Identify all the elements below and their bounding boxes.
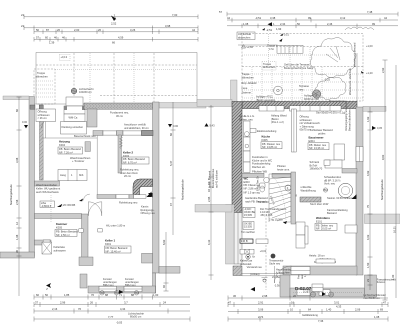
survey marker — [111, 14, 117, 26]
svg-text:Rohrleitung neu: Rohrleitung neu — [119, 200, 138, 204]
0.00 level marker right — [168, 124, 179, 128]
svg-text:NF: 2,56 m²: NF: 2,56 m² — [56, 233, 70, 237]
svg-text:40/40 cm tief: 40/40 cm tief — [304, 97, 319, 101]
right wall — [356, 107, 363, 275]
top wall with foundation texture — [84, 103, 153, 109]
svg-text:Keller 2: Keller 2 — [123, 151, 134, 155]
section dashed line — [265, 211, 267, 290]
svg-text:7,77: 7,77 — [108, 315, 114, 319]
svg-text:2,96: 2,96 — [60, 300, 66, 304]
svg-text:26: 26 — [98, 28, 101, 32]
Rohrleitung duct (hatched quarter bend) — [133, 179, 153, 196]
svg-text:16: 16 — [207, 189, 211, 192]
svg-text:10,21: 10,21 — [393, 226, 397, 233]
svg-text:100x50 cm: 100x50 cm — [79, 90, 92, 94]
lightwell structure below bottom wall — [280, 274, 396, 297]
svg-text:3,98: 3,98 — [165, 24, 171, 28]
Lichtschachtfenster note — [364, 293, 386, 300]
svg-text:1,00: 1,00 — [153, 293, 159, 297]
svg-text:Bestand: Bestand — [327, 211, 337, 215]
left marker — [205, 123, 216, 127]
svg-text:Kammer: Kammer — [56, 222, 68, 226]
svg-text:Treppe: Treppe — [242, 72, 251, 76]
window in bottom wall — [291, 267, 310, 275]
svg-text:3,26: 3,26 — [130, 28, 136, 32]
left wall hatched — [232, 102, 242, 213]
svg-text:36: 36 — [233, 294, 236, 298]
svg-text:+1,20: +1,20 — [366, 71, 373, 75]
svg-text:16: 16 — [291, 300, 294, 304]
svg-text:Zisterne: Zisterne — [242, 91, 252, 95]
bottom dimension row 3 — [228, 305, 388, 317]
svg-text:Stufe neu: Stufe neu — [269, 262, 281, 266]
svg-text:44: 44 — [227, 16, 230, 20]
svg-text:Elektroverteilung: Elektroverteilung — [257, 129, 277, 133]
Kellerluke crossed box — [42, 240, 66, 255]
svg-text:abbrechen: abbrechen — [242, 76, 255, 80]
bottom dimension row 2 — [34, 300, 190, 307]
svg-text:Erdg: Terr.Gr: Erdg: Terr.Gr — [256, 176, 260, 191]
Einbau abbrechen small box — [237, 32, 255, 40]
svg-text:-0,03: -0,03 — [116, 321, 123, 325]
Keller 2 label — [122, 151, 149, 165]
svg-text:heute ums.: heute ums. — [277, 167, 290, 171]
svg-text:Versorgungsltg. unterputz: Versorgungsltg. unterputz — [344, 101, 348, 131]
svg-text:abbrechen: abbrechen — [36, 75, 49, 79]
Im HE-G Balken note — [239, 114, 255, 121]
bottom wall — [88, 286, 156, 293]
bottom-left neighbour strip — [0, 252, 35, 258]
svg-text:K005: K005 — [56, 225, 63, 229]
top dimension chain row 2 — [227, 16, 398, 22]
svg-text:4,59: 4,59 — [118, 36, 124, 40]
top dimension chain row 1 — [21, 13, 198, 19]
terrace dashed outer boundary — [242, 34, 363, 102]
svg-text:Rep.-Abdeck: Rep.-Abdeck — [242, 81, 258, 85]
WC fixtures — [258, 177, 270, 204]
window 1 in bottom wall — [99, 277, 117, 295]
svg-text:88: 88 — [105, 293, 108, 297]
svg-text:76: 76 — [78, 307, 81, 311]
existing wall stub above left wall — [231, 80, 238, 106]
bottom dimension row 4 — [34, 315, 190, 325]
Regal note — [309, 254, 336, 265]
svg-text:Bestand abdecken: Bestand abdecken — [347, 109, 351, 131]
svg-text:2,91: 2,91 — [258, 300, 264, 304]
svg-text:3,38: 3,38 — [270, 16, 276, 20]
svg-text:lt. abdichten: lt. abdichten — [276, 271, 291, 275]
svg-text:64: 64 — [308, 307, 311, 311]
D-02.07 drawing label — [295, 284, 323, 292]
svg-text:Sturz über 1KW: Sturz über 1KW — [310, 202, 329, 206]
svg-text:Küche: Küche — [262, 135, 271, 139]
left vertical dimension chain — [15, 97, 28, 296]
Heizung bottom wall — [35, 181, 60, 186]
bottom dimension row 1 — [34, 293, 190, 300]
svg-text:-2,51: -2,51 — [266, 28, 273, 32]
svg-text:15,505: 15,505 — [244, 213, 252, 217]
svg-text:Pflichten WB: Pflichten WB — [252, 169, 267, 173]
Kammer bottom wall piece — [35, 240, 52, 245]
svg-text:E004: E004 — [309, 139, 316, 143]
Zisterne stack labels — [242, 72, 258, 95]
svg-text:Kleidung-vorsehen: Kleidung-vorsehen — [62, 125, 84, 129]
DH Trennwand note — [260, 207, 286, 222]
bottom dimension row 2 — [228, 300, 388, 307]
svg-text:47: 47 — [383, 300, 386, 304]
svg-text:Waschraumboden: Waschraumboden — [36, 183, 58, 187]
Kellerabteil note — [282, 288, 287, 292]
svg-text:-0,80/2.5: -0,80/2.5 — [41, 204, 52, 208]
radiator under window — [316, 259, 335, 263]
wall between Flur and Keller 2 — [118, 135, 121, 173]
right neighbour strip — [365, 214, 400, 224]
small level box left — [40, 195, 55, 223]
svg-text:1,93: 1,93 — [366, 116, 370, 122]
svg-text:66: 66 — [112, 41, 115, 45]
tree cloud upper — [310, 38, 356, 78]
small grey cabinet — [85, 142, 90, 152]
svg-text:NF: 2,86 m²: NF: 2,86 m² — [244, 186, 258, 190]
svg-text:FB: Dielen neu: FB: Dielen neu — [309, 143, 327, 147]
svg-text:Reinigungs-: Reinigungs- — [141, 208, 155, 212]
svg-text:24: 24 — [163, 300, 166, 304]
svg-text:1,08: 1,08 — [243, 22, 249, 26]
svg-text:Treppe: Treppe — [37, 71, 46, 75]
-2,51 marker — [262, 28, 273, 32]
svg-text:46: 46 — [62, 36, 65, 40]
labels lower left — [240, 239, 293, 287]
svg-text:57: 57 — [36, 36, 39, 40]
left neighbour strip upper — [197, 100, 232, 107]
svg-text:71: 71 — [119, 293, 122, 297]
svg-text:Kamin: Kamin — [141, 204, 149, 208]
svg-text:2,34: 2,34 — [280, 22, 286, 26]
svg-text:7,48: 7,48 — [367, 10, 373, 14]
new entry steps — [277, 45, 303, 53]
svg-text:FB: Beton Bestand: FB: Beton Bestand — [59, 147, 81, 151]
svg-text:Nachbargebäude: Nachbargebäude — [181, 179, 185, 200]
svg-text:57: 57 — [219, 10, 222, 14]
bottom dimension row 3 — [34, 307, 190, 319]
right vertical dimension line inner — [162, 232, 169, 291]
svg-text:Bodenschachtrinne hales: Bodenschachtrinne hales — [284, 66, 314, 70]
svg-text:76: 76 — [91, 293, 94, 297]
svg-text:0,167: 0,167 — [303, 289, 310, 293]
svg-text:60: 60 — [45, 36, 48, 40]
svg-text:H/L unter 1,80 m: H/L unter 1,80 m — [106, 224, 125, 228]
svg-text:10: 10 — [290, 307, 293, 311]
horizontal wall between rows — [242, 169, 357, 178]
svg-text:KS: KS — [311, 293, 315, 297]
Rohrleitung neu label upper — [120, 168, 139, 179]
svg-text:6,92: 6,92 — [162, 239, 166, 245]
terrace circle 2 (Auflager) — [312, 90, 320, 98]
pillar on right wall — [142, 253, 153, 263]
svg-text:Heizung: Heizung — [59, 140, 70, 144]
svg-text:Balken, neu: Balken, neu — [239, 117, 253, 121]
svg-text:+1,00: +1,00 — [366, 44, 373, 48]
entry door arc bottom — [275, 266, 292, 283]
svg-text:50: 50 — [45, 293, 48, 297]
svg-text:4,03: 4,03 — [366, 234, 370, 240]
svg-text:12: 12 — [15, 222, 19, 225]
svg-text:30 cm: 30 cm — [116, 114, 123, 118]
door marker triangle on right wall — [147, 192, 152, 198]
svg-text:Besenschrank neu: Besenschrank neu — [74, 134, 96, 138]
svg-text:23: 23 — [366, 279, 370, 282]
svg-text:FB: Beton Bestand: FB: Beton Bestand — [56, 229, 78, 233]
svg-text:NF: 13,36 m²: NF: 13,36 m² — [309, 146, 324, 150]
svg-text:NF: 13,86 m²: NF: 13,86 m² — [262, 145, 277, 149]
window in right wall — [356, 147, 363, 162]
svg-text:44: 44 — [192, 28, 195, 32]
svg-text:9,43: 9,43 — [210, 124, 216, 128]
right outer wall — [153, 102, 160, 273]
svg-text:unter dem Dein: unter dem Dein — [120, 171, 138, 175]
svg-text:87: 87 — [46, 28, 49, 32]
svg-text:Nachbargebäude: Nachbargebäude — [9, 184, 13, 205]
svg-text:1,40: 1,40 — [326, 307, 332, 311]
svg-text:fixieren: fixieren — [377, 280, 386, 284]
svg-text:N: N — [45, 288, 49, 290]
svg-text:946 B: 946 B — [241, 239, 248, 243]
circled markers bottom — [311, 292, 334, 297]
fireplace circle — [338, 183, 352, 197]
svg-text:NF: 7,26 m²: NF: 7,26 m² — [59, 150, 73, 154]
top dimension chain row 2 — [21, 24, 198, 30]
svg-text:FB: Beton Bestand: FB: Beton Bestand — [123, 157, 145, 161]
svg-text:26: 26 — [90, 300, 93, 304]
svg-text:+1,80: +1,80 — [247, 45, 254, 49]
svg-text:neue: neue — [242, 87, 248, 90]
svg-text:Rd: Rd — [135, 291, 139, 295]
top dimension chain row 4 — [34, 36, 198, 45]
svg-text:BM: BM — [324, 188, 328, 192]
svg-text:0,36: 0,36 — [275, 283, 281, 287]
svg-text:Steinst. 60 B Funktionen: Steinst. 60 B Funktionen — [327, 196, 356, 200]
marker triangle lower — [251, 287, 256, 291]
svg-text:NF: 20,05 m²: NF: 20,05 m² — [316, 227, 331, 231]
svg-text:-0,51: -0,51 — [283, 33, 289, 37]
svg-text:4,93: 4,93 — [366, 170, 370, 176]
bottom dimension row 1 — [228, 289, 388, 300]
-2,20 OKFFB label — [57, 199, 83, 208]
svg-text:1,85: 1,85 — [64, 293, 70, 297]
svg-text:50: 50 — [297, 22, 300, 26]
terrace circle 1 — [274, 86, 283, 95]
svg-text:2,06: 2,06 — [355, 307, 361, 311]
Elektroverteilung note + box — [250, 129, 277, 134]
svg-text:Ausg: Ausg — [60, 173, 66, 177]
svg-text:65x75 cm: 65x75 cm — [300, 128, 311, 132]
wall between kitchen and right room — [292, 109, 297, 152]
svg-text:Wandanschl. abdichten: Wandanschl. abdichten — [348, 68, 352, 95]
svg-text:50: 50 — [36, 28, 39, 32]
svg-text:K004: K004 — [59, 143, 66, 147]
svg-text:3,01: 3,01 — [334, 300, 340, 304]
zigzag insulation line — [120, 136, 123, 149]
Rohrleitung neu label lower + Kamin — [119, 193, 155, 215]
tree cloud lower — [315, 77, 346, 99]
svg-text:+0,13: +0,13 — [61, 55, 68, 59]
Kaminverkleidung note — [327, 208, 348, 215]
couch — [296, 222, 308, 248]
svg-text:26 cm: 26 cm — [124, 174, 131, 178]
svg-text:26: 26 — [293, 294, 296, 298]
svg-text:Install. Gewerk: Install. Gewerk — [208, 170, 212, 188]
left wall lower part — [234, 213, 242, 265]
svg-text:FB: Beton Bestand: FB: Beton Bestand — [106, 246, 128, 250]
bottom dimension row 4 — [228, 315, 388, 323]
small arrow — [279, 39, 283, 42]
svg-text:88: 88 — [131, 293, 134, 297]
svg-text:(Pos.1 u.2): (Pos.1 u.2) — [271, 120, 284, 124]
svg-text:Gefälleleitung: Gefälleleitung — [302, 313, 318, 317]
svg-text:Wurzelstock Bestand: Wurzelstock Bestand — [353, 42, 357, 67]
svg-text:2,95: 2,95 — [207, 196, 211, 202]
Kueche room label — [261, 135, 282, 150]
svg-text:36: 36 — [15, 250, 19, 253]
terrace paving grid — [242, 67, 363, 101]
svg-text:60: 60 — [15, 109, 19, 112]
svg-text:44: 44 — [384, 16, 387, 20]
top-left neighbour wall stub — [3, 96, 29, 100]
svg-text:1,93: 1,93 — [276, 27, 282, 31]
black corner marker — [352, 194, 357, 199]
north wall hatched — [242, 102, 357, 109]
svg-text:aufmauern: aufmauern — [54, 248, 67, 252]
svg-text:KS: KS — [329, 293, 333, 297]
svg-text:(Anbau): (Anbau) — [250, 272, 259, 276]
svg-text:2,46: 2,46 — [327, 22, 333, 26]
top dimension chain row 3 — [34, 28, 198, 34]
+1,20 marker right — [361, 71, 373, 75]
svg-text:Tür nachher: Tür nachher — [241, 230, 255, 234]
svg-text:180x60x70: 180x60x70 — [310, 167, 323, 171]
svg-text:0.00: 0.00 — [22, 120, 28, 124]
svg-text:0.00: 0.00 — [173, 124, 179, 128]
svg-text:4,32: 4,32 — [207, 239, 211, 245]
svg-text:7,00: 7,00 — [172, 13, 178, 17]
svg-text:NF: 15,40 m²: NF: 15,40 m² — [106, 249, 121, 253]
svg-text:auch WS-Nachweis: auch WS-Nachweis — [36, 190, 59, 194]
svg-text:47: 47 — [169, 203, 173, 206]
bottom wall — [283, 266, 357, 275]
svg-text:26: 26 — [57, 28, 60, 32]
stair — [269, 174, 297, 224]
-0,51 marker — [280, 33, 289, 37]
svg-text:2,92: 2,92 — [381, 67, 385, 73]
Treppe neu 4 St label — [267, 44, 281, 51]
svg-text:1,00: 1,00 — [391, 274, 395, 280]
left outer wall (existing) — [29, 97, 35, 257]
svg-text:3,06: 3,06 — [258, 307, 264, 311]
svg-text:Rd: Rd — [101, 291, 105, 295]
svg-text:2,74: 2,74 — [258, 315, 264, 319]
svg-text:1,50: 1,50 — [366, 262, 370, 268]
Kammer label — [55, 222, 84, 237]
svg-text:bbb: bbb — [79, 173, 84, 177]
svg-text:Vorh. neu: Vorh. neu — [324, 182, 336, 186]
Kammer top wall — [35, 214, 82, 219]
Waschraumboden note — [36, 183, 60, 194]
Garderobe note — [245, 196, 268, 203]
svg-text:15.505: 15.505 — [244, 225, 252, 229]
light band continuing right of top wall — [159, 103, 206, 109]
Keller 1 label — [105, 239, 132, 254]
svg-text:4,33: 4,33 — [336, 305, 342, 309]
inner insulated wall (hatched) — [30, 105, 35, 109]
Lichtschacht symbol — [71, 87, 93, 94]
Fussboden in Kueche note — [252, 155, 272, 169]
svg-text:3,08: 3,08 — [15, 157, 19, 163]
svg-text:-2,20 OKFFB: -2,20 OKFFB — [60, 203, 76, 207]
svg-text:9,82: 9,82 — [381, 154, 385, 160]
svg-text:2,00: 2,00 — [74, 28, 80, 32]
svg-text:Nachbargebäude: Nachbargebäude — [380, 179, 384, 200]
kitchen counter along left wall — [244, 121, 251, 173]
svg-text:nach FB: Bestand: nach FB: Bestand — [245, 199, 266, 203]
left neighbour strip lower — [195, 205, 232, 213]
svg-text:< 26 cm: < 26 cm — [38, 116, 47, 120]
right vertical dim chain outer — [381, 60, 397, 300]
svg-text:Keller 1: Keller 1 — [105, 239, 116, 243]
svg-text:60: 60 — [36, 293, 39, 297]
interior wall row below foundation (with openings) — [93, 130, 153, 135]
svg-text:WM-Ca: WM-Ca — [69, 116, 78, 120]
Gefaelle ueber Terrasse note — [284, 63, 314, 70]
svg-text:4 St: 4 St — [269, 47, 274, 51]
svg-text:Bauzimmer: Bauzimmer — [309, 136, 325, 140]
svg-text:2,16: 2,16 — [52, 307, 58, 311]
north arrow marker lower left — [45, 283, 51, 290]
svg-text:99: 99 — [308, 16, 311, 20]
Oeffnung schliessen label — [36, 109, 56, 128]
right side extension strip — [159, 267, 180, 274]
svg-text:3,7: 3,7 — [124, 300, 128, 304]
Heizung room top line — [43, 137, 97, 139]
svg-text:+0,01: +0,01 — [260, 249, 267, 253]
svg-text:37: 37 — [35, 300, 38, 304]
svg-text:abbrechen: abbrechen — [238, 35, 251, 39]
svg-text:3,12: 3,12 — [340, 16, 346, 20]
svg-text:-0,25: -0,25 — [324, 78, 330, 82]
svg-text:K001: K001 — [105, 242, 112, 246]
svg-text:Strz 50x50 +0,05 (+ 0,1g): Strz 50x50 +0,05 (+ 0,1g) — [316, 111, 346, 115]
svg-text:Flächen elt.: Flächen elt. — [252, 165, 266, 169]
interior wall left of corridor — [87, 109, 97, 127]
svg-text:80x50 cm: 80x50 cm — [130, 315, 141, 319]
svg-text:+ Trockner: + Trockner — [72, 159, 84, 163]
fireplace label — [300, 175, 356, 206]
Fenster austausch note — [297, 267, 308, 279]
windows row under north wall — [259, 106, 341, 111]
Heizung room label — [58, 140, 91, 181]
svg-text:neu: neu — [299, 88, 304, 91]
corridor edge line — [96, 136, 98, 195]
right neighbour stub top — [363, 106, 386, 111]
Fundament neu label — [110, 111, 129, 119]
level box — [241, 207, 255, 234]
stair / WM shaft block — [61, 97, 87, 134]
svg-text:4,34: 4,34 — [120, 307, 126, 311]
svg-text:K005: K005 — [262, 138, 269, 142]
Treppe abbrechen small box terrace — [262, 62, 276, 71]
Install Gewerk vertical note — [208, 168, 219, 188]
sideboard right — [345, 225, 357, 233]
svg-text:75: 75 — [366, 205, 370, 208]
